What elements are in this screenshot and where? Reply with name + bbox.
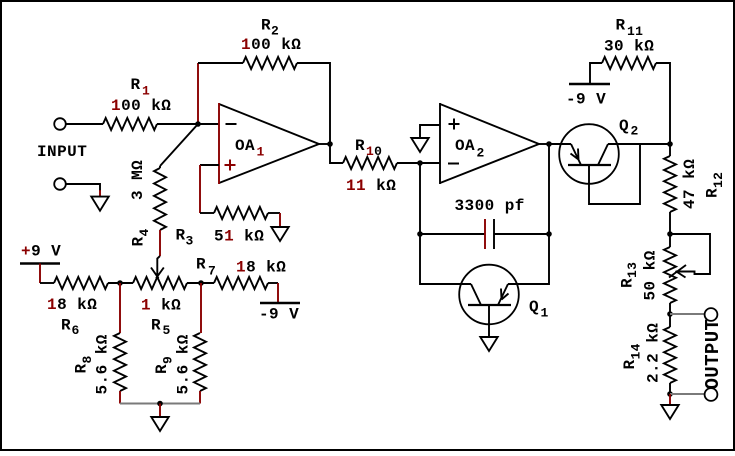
wire R2 left xyxy=(198,62,243,64)
svg-text:OA: OA xyxy=(455,137,475,155)
node F junction dot xyxy=(546,141,552,147)
wire R13 to node K xyxy=(669,303,671,327)
op-amp OA2 plus sign xyxy=(449,119,460,130)
svg-text:51 kΩ: 51 kΩ xyxy=(214,228,264,246)
svg-text:5.6 kΩ: 5.6 kΩ xyxy=(175,334,193,394)
resistor R11 xyxy=(602,57,656,69)
svg-text:INPUT: INPUT xyxy=(37,143,87,161)
wire OA2 out to Q2 emitter xyxy=(549,143,571,145)
wire node B to R8 (red) xyxy=(119,283,121,333)
resistor R1 xyxy=(103,118,157,130)
wire R11 right to rail xyxy=(656,63,670,144)
svg-text:47 kΩ: 47 kΩ xyxy=(681,159,699,209)
transistor Q1 collector diagonal xyxy=(471,284,481,305)
capacitor C1 right plate xyxy=(493,219,495,249)
wire R6 to node B xyxy=(108,282,133,284)
node L junction dot xyxy=(667,391,673,397)
node I junction dot xyxy=(667,141,673,147)
svg-text:1: 1 xyxy=(541,306,549,321)
potentiometer R13 wiper arrow xyxy=(669,265,686,278)
op-amp OA1 body xyxy=(219,104,319,183)
wire node K to output terminal (grey) xyxy=(670,313,705,315)
transistor Q1 emitter diagonal with arrow xyxy=(498,284,509,305)
svg-text:R: R xyxy=(355,137,365,155)
ground (bottom left) xyxy=(151,417,168,431)
wire R11 left elbow xyxy=(590,63,602,84)
wire input to R1 xyxy=(66,123,103,125)
wire node E down to cap row xyxy=(419,163,421,234)
resistor R6 xyxy=(54,277,108,289)
transistor Q1 base bar xyxy=(468,304,511,306)
wire OA2 + input elbow to ground xyxy=(420,125,440,138)
wire +9V stub (red) xyxy=(39,264,41,284)
svg-text:-9 V: -9 V xyxy=(566,91,606,109)
wire cap left lead xyxy=(420,233,485,235)
wire R7 to -9V xyxy=(268,282,278,284)
svg-text:5.6 kΩ: 5.6 kΩ xyxy=(94,334,112,394)
wire node A riser (red) xyxy=(197,63,199,124)
svg-text:R: R xyxy=(61,317,71,335)
svg-text:R: R xyxy=(151,317,161,335)
wire R9 bottom lead (red) xyxy=(199,391,201,404)
wire R8 bottom lead (red) xyxy=(119,391,121,404)
wire stub red to input ground xyxy=(99,190,101,197)
svg-text:6: 6 xyxy=(72,323,80,338)
wire Q2 base feedback U xyxy=(589,144,640,204)
node J junction dot xyxy=(667,231,673,237)
op-amp OA1 minus sign xyxy=(226,123,237,125)
ground (OA2 +) xyxy=(411,138,428,152)
svg-text:100 kΩ: 100 kΩ xyxy=(241,36,301,54)
input terminal J2 xyxy=(54,178,66,190)
node C junction dot xyxy=(198,280,204,286)
svg-text:R: R xyxy=(176,227,186,245)
svg-text:R: R xyxy=(196,256,206,274)
transistor Q2 collector diagonal xyxy=(598,144,608,165)
wire R1 to node A xyxy=(157,123,219,125)
transistor Q2 circle xyxy=(559,124,619,184)
svg-text:2.2 kΩ: 2.2 kΩ xyxy=(645,323,663,383)
ground (output) xyxy=(661,405,678,419)
svg-text:+9 V: +9 V xyxy=(21,243,61,261)
resistor R12 xyxy=(664,156,676,212)
wire +9V to R6 xyxy=(40,282,54,284)
wire R14 to node L xyxy=(669,383,671,394)
wire J2 to ground xyxy=(66,184,100,191)
resistor R8 xyxy=(114,333,126,391)
svg-text:R: R xyxy=(131,76,141,94)
op-amp OA1 left edge (red) xyxy=(218,103,220,184)
wire stub to ground (red) xyxy=(669,394,671,405)
svg-text:3: 3 xyxy=(186,234,194,249)
svg-text:30 kΩ: 30 kΩ xyxy=(604,38,654,56)
wire OA2 output lead xyxy=(539,143,549,145)
svg-text:10: 10 xyxy=(366,144,382,159)
svg-text:Q: Q xyxy=(529,298,539,316)
svg-text:1 kΩ: 1 kΩ xyxy=(141,297,181,315)
ground (Q1) xyxy=(480,337,497,351)
svg-text:3 MΩ: 3 MΩ xyxy=(129,160,147,200)
output terminal J3 xyxy=(705,308,718,321)
wire -9V stub (red) xyxy=(277,283,279,303)
wire R13 wiper loop xyxy=(670,234,710,274)
ground (R3) xyxy=(271,227,288,241)
wire R8-R9 bottom rail (grey) xyxy=(120,403,200,405)
wire OA2 out down to cap row xyxy=(548,144,550,234)
resistor R2 xyxy=(243,57,297,69)
svg-text:5: 5 xyxy=(163,323,171,338)
wire node A diagonal to R4 xyxy=(160,124,198,166)
node B junction dot xyxy=(117,280,123,286)
svg-text:3300 pf: 3300 pf xyxy=(455,197,525,215)
node E junction dot xyxy=(417,160,423,166)
wire node C to R9 (red) xyxy=(200,283,202,333)
op-amp OA2 minus sign xyxy=(448,163,459,165)
wire to R3 xyxy=(200,212,214,214)
output terminal J4 xyxy=(705,388,718,401)
svg-text:11 kΩ: 11 kΩ xyxy=(346,177,396,195)
node G junction dot xyxy=(417,231,423,237)
input terminal J1 xyxy=(54,118,66,130)
svg-text:2: 2 xyxy=(631,124,639,139)
resistor R10 xyxy=(343,157,397,169)
wire R3 to ground xyxy=(268,212,280,214)
capacitor C1 left plate (red) xyxy=(484,219,486,249)
svg-text:-9 V: -9 V xyxy=(259,306,299,324)
wire node I to R12 xyxy=(669,144,671,156)
node OA1 output dot xyxy=(327,141,333,147)
potentiometer R5 body xyxy=(133,277,187,289)
resistor R3 xyxy=(214,207,268,219)
resistor R14 xyxy=(664,327,676,383)
wire Q1 base lead xyxy=(488,305,490,337)
op-amp OA1 plus sign (red) xyxy=(225,160,236,171)
svg-text:OA: OA xyxy=(235,137,255,155)
wire left drop to Q1 collector xyxy=(420,234,471,284)
wire node L to output terminal (grey) xyxy=(670,393,705,395)
wire stub red R3 ground xyxy=(279,213,281,227)
svg-text:Q: Q xyxy=(619,117,629,135)
svg-text:18 kΩ: 18 kΩ xyxy=(47,296,97,314)
resistor R7 xyxy=(214,277,268,289)
wire stub to ground (red) xyxy=(159,404,161,418)
wire right drop to Q1 emitter xyxy=(508,234,549,284)
wire OA1 output lead xyxy=(319,143,330,145)
node K junction dot xyxy=(667,311,673,317)
wire OA1 + riser (red) xyxy=(199,165,201,213)
wire cap right lead xyxy=(494,233,549,235)
-9V supply bar (left) xyxy=(260,302,300,304)
wire R5 to node C xyxy=(187,282,214,284)
op-amp OA2 body xyxy=(440,103,539,184)
svg-text:1: 1 xyxy=(257,145,265,160)
wire OA1 out down to R10 xyxy=(330,144,343,163)
node H junction dot xyxy=(546,231,552,237)
svg-text:R: R xyxy=(616,17,626,35)
wire R4 bottom lead (red) xyxy=(159,230,161,256)
-9V supply bar (under R11) xyxy=(569,83,610,85)
svg-text:100 kΩ: 100 kΩ xyxy=(111,97,171,115)
svg-text:OUTPUT: OUTPUT xyxy=(702,319,724,390)
wire R12 to node J xyxy=(669,212,671,247)
wire Q2 collector to node I xyxy=(608,143,670,145)
wire R2 right down to OA1 output xyxy=(297,63,330,144)
svg-text:2: 2 xyxy=(477,146,485,161)
transistor Q2 emitter diagonal with arrow xyxy=(571,144,582,165)
svg-text:50 kΩ: 50 kΩ xyxy=(642,250,660,300)
node A junction dot xyxy=(195,121,201,127)
resistor R4 xyxy=(154,166,166,230)
resistor R9 xyxy=(194,333,206,391)
ground (input) xyxy=(91,197,108,211)
transistor Q1 circle xyxy=(459,265,519,325)
svg-text:7: 7 xyxy=(208,264,216,279)
+9V supply bar xyxy=(20,262,60,264)
node D junction dot xyxy=(157,401,163,407)
svg-text:18 kΩ: 18 kΩ xyxy=(236,259,286,277)
svg-text:R: R xyxy=(261,17,271,35)
potentiometer R13 body xyxy=(664,247,676,303)
wire OA1 + input elbow xyxy=(200,164,219,166)
wire R10 to OA2 - input xyxy=(397,162,440,164)
potentiometer R5 wiper arrow xyxy=(151,256,164,278)
transistor Q2 base bar xyxy=(568,164,611,166)
